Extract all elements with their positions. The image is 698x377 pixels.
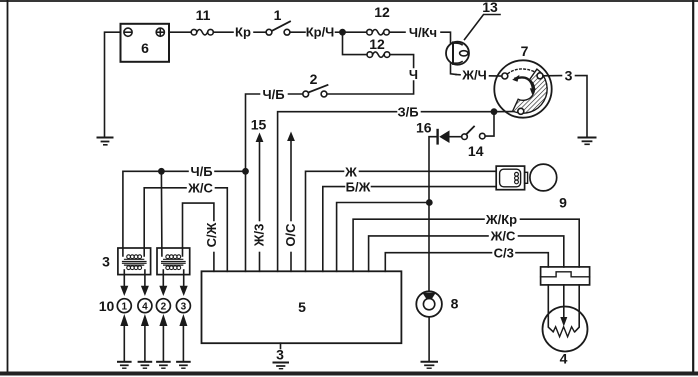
label Ж: [344, 164, 357, 179]
wire switch 7 right pin to 3: [543, 75, 562, 77]
fuel level sender 4: [543, 285, 588, 367]
wire Ж/С label to coil A: [144, 188, 186, 256]
svg-text:15: 15: [251, 117, 267, 133]
gap arrow plug 1: [120, 314, 128, 361]
svg-text:Ж/Ч: Ж/Ч: [461, 68, 487, 83]
svg-text:6: 6: [141, 40, 149, 56]
node C junction: [491, 109, 496, 114]
wire node A to fuse 12a: [343, 31, 367, 33]
svg-text:Ч/Кч: Ч/Кч: [409, 25, 437, 40]
wire node E to coil B primary: [160, 171, 163, 256]
pickup sensor 8: [416, 291, 458, 317]
label Ж/3 (rotated): [252, 224, 267, 248]
battery 6: [121, 24, 170, 62]
HT lead coil B cyl 3: [180, 270, 188, 296]
label Кр/Ч: [306, 25, 335, 40]
switch 1: [266, 7, 290, 35]
svg-text:13: 13: [482, 0, 498, 15]
svg-text:2: 2: [310, 71, 318, 87]
gap arrow plug 4: [141, 314, 149, 361]
wire Ч/Б label to coil A primary: [123, 171, 188, 256]
spark plug cyl 1: [117, 299, 131, 313]
svg-text:Ч/Б: Ч/Б: [262, 87, 284, 102]
switch 7 (gear position switch): [494, 43, 551, 118]
switch 14 (starter button): [462, 127, 485, 160]
svg-text:12: 12: [374, 4, 390, 20]
wire node A down to fuse 12b: [343, 32, 367, 54]
node E junction (coil B feed): [159, 169, 164, 174]
label Ж/С (coil return): [187, 181, 213, 196]
svg-text:2: 2: [161, 302, 167, 313]
svg-text:3: 3: [565, 68, 573, 84]
fuse 12b: [367, 36, 390, 57]
wire Б/Ж from unit 5: [323, 187, 345, 272]
svg-text:16: 16: [416, 120, 432, 136]
ground (switch 7): [579, 138, 596, 145]
label 13 with pointer: [465, 0, 501, 40]
ground (sensor 8): [422, 362, 438, 368]
ground (plug 4): [139, 362, 152, 368]
wire sensor 8 to ground: [428, 317, 430, 361]
wire unit 5 to ground: [280, 343, 282, 348]
svg-text:Ж/Кр: Ж/Кр: [485, 212, 517, 227]
fuse 12a: [367, 4, 390, 35]
label С/3: [494, 246, 514, 261]
svg-text:3: 3: [181, 302, 187, 313]
svg-text:11: 11: [196, 7, 211, 23]
label Ж/Кр: [485, 212, 517, 227]
switch 2: [303, 71, 328, 97]
ignition coil 3 block A: [118, 248, 151, 275]
wire З/Б to node C: [422, 111, 495, 113]
svg-text:Ж: Ж: [344, 164, 357, 179]
lamp 13 (neutral indicator bulb): [446, 42, 469, 75]
label 10 (spark plugs): [99, 298, 115, 314]
svg-text:Ч: Ч: [409, 67, 418, 82]
wire node C to switch 7 bottom pin: [494, 110, 518, 112]
wire Ж/Кр to connector 4: [521, 219, 580, 267]
wire fuse 12a to Ч/Кч label: [389, 31, 405, 33]
wire switch 2 to Ч/Б label: [289, 93, 303, 95]
label 3 (unit 5 ground net): [276, 347, 284, 363]
svg-text:Ж/3: Ж/3: [252, 224, 267, 248]
HT lead coil A cyl 1: [120, 270, 128, 296]
ground (battery): [98, 138, 113, 145]
svg-text:9: 9: [559, 195, 567, 211]
wire Кр to switch 1: [254, 31, 266, 33]
ground (unit 5): [274, 363, 289, 369]
svg-text:Ж/С: Ж/С: [490, 229, 516, 244]
wire Ж/Кр from unit 5: [353, 219, 484, 271]
wire fuse 11 to Кр label: [213, 31, 233, 33]
ground (plug 3): [177, 362, 190, 368]
spark plug cyl 2: [156, 299, 170, 313]
node D junction: [427, 200, 432, 205]
label Ч: [409, 67, 418, 82]
svg-text:1: 1: [274, 7, 282, 23]
wire fuse 12b to Ч label: [390, 55, 414, 68]
wire С/3 from unit 5: [385, 253, 491, 272]
wire Ж from unit 5: [306, 171, 344, 271]
svg-text:14: 14: [468, 143, 484, 159]
wire 3 to ground: [576, 76, 588, 137]
node B junction on Ч/Б vertical: [243, 169, 248, 174]
svg-text:Кр: Кр: [235, 25, 251, 40]
wire Ч/Б down to unit 5 (vertical x245.5): [246, 94, 260, 271]
wire Ж/С from unit 5: [216, 188, 228, 271]
svg-text:5: 5: [298, 299, 306, 315]
spark plug cyl 4: [138, 299, 152, 313]
spark plug cyl 3: [176, 299, 190, 313]
wire battery plus to fuse 11: [169, 31, 191, 33]
wire З/Б from unit 5: [278, 112, 397, 272]
label З/Б: [397, 105, 418, 120]
wire С/Ж from unit 5 to coil B: [183, 203, 214, 271]
wire Ч to switch 2: [328, 81, 414, 94]
node A junction: [340, 30, 345, 35]
wire arrow О/С from unit 5: [287, 132, 295, 272]
svg-text:4: 4: [142, 302, 148, 313]
svg-text:Кр/Ч: Кр/Ч: [306, 25, 335, 40]
label С/Ж (rotated): [204, 222, 219, 247]
wire Ж/С from unit 5 (right): [369, 236, 488, 271]
label Ч/Б (coil feed): [190, 164, 212, 179]
label Кр: [235, 25, 251, 40]
wire unit 5 to node D: [337, 203, 429, 272]
ground (plug 1): [118, 362, 131, 368]
svg-text:Ж/С: Ж/С: [187, 181, 213, 196]
svg-text:3: 3: [102, 254, 110, 270]
HT lead coil B cyl 2: [159, 270, 167, 296]
wire battery minus to ground: [105, 32, 121, 136]
label 15: [251, 117, 267, 133]
wire diode to node D (vertical x429): [429, 137, 438, 292]
svg-text:8: 8: [451, 296, 459, 312]
connector (fuel sender 4): [541, 267, 590, 285]
diode 16: [416, 120, 449, 144]
svg-text:3: 3: [276, 347, 284, 363]
gap arrow plug 3: [179, 314, 187, 361]
svg-text:Б/Ж: Б/Ж: [346, 179, 371, 194]
svg-text:12: 12: [369, 36, 385, 52]
wire Ж to relay 9: [360, 170, 497, 172]
ground (plug 2): [157, 362, 170, 368]
svg-text:10: 10: [99, 298, 115, 314]
label Ч/Б (switch feed): [262, 87, 284, 102]
gap arrow plug 2: [159, 314, 167, 361]
label Ч/Кч: [409, 25, 437, 40]
ignition coil 3 block B: [157, 248, 190, 275]
wire Ч/Кч to lamp 13: [441, 32, 451, 42]
wire Ж/Ч to switch 7 left pin: [490, 75, 502, 77]
label О/С (rotated): [283, 223, 298, 247]
wire Б/Ж to relay 9: [372, 186, 497, 188]
wire Ж/С to connector 4: [519, 236, 564, 267]
svg-text:Ч/Б: Ч/Б: [190, 164, 212, 179]
HT lead coil A cyl 4: [141, 270, 149, 296]
svg-text:7: 7: [521, 43, 529, 59]
label 3 (frame/ground net): [565, 68, 573, 84]
svg-text:1: 1: [122, 302, 128, 313]
wire Кр/Ч to node A: [336, 31, 343, 33]
starter motor (circle of 9): [530, 164, 567, 210]
wire arrow 15 Ж/3 from unit 5: [256, 133, 264, 272]
label Ж/С (right): [490, 229, 516, 244]
svg-text:С/3: С/3: [494, 246, 514, 261]
fuse 11: [191, 7, 213, 35]
label Ж/Ч: [456, 68, 487, 83]
svg-text:С/Ж: С/Ж: [204, 222, 219, 247]
wire switch 14 to diode 16: [450, 136, 462, 138]
unit 5 (CDI control unit): [202, 271, 402, 343]
wire Ч/Б left branch (to coils): [215, 170, 246, 172]
wire switch 1 to Кр/Ч label: [290, 31, 305, 33]
relay 9 (starter relay): [496, 166, 527, 190]
svg-text:О/С: О/С: [283, 223, 298, 247]
wire node C down to switch 14: [485, 112, 494, 136]
wire С/3 to connector 4: [516, 253, 548, 267]
svg-text:З/Б: З/Б: [397, 105, 418, 120]
label Б/Ж: [346, 179, 371, 194]
svg-text:4: 4: [560, 351, 568, 367]
label 3 (coils): [102, 254, 110, 270]
